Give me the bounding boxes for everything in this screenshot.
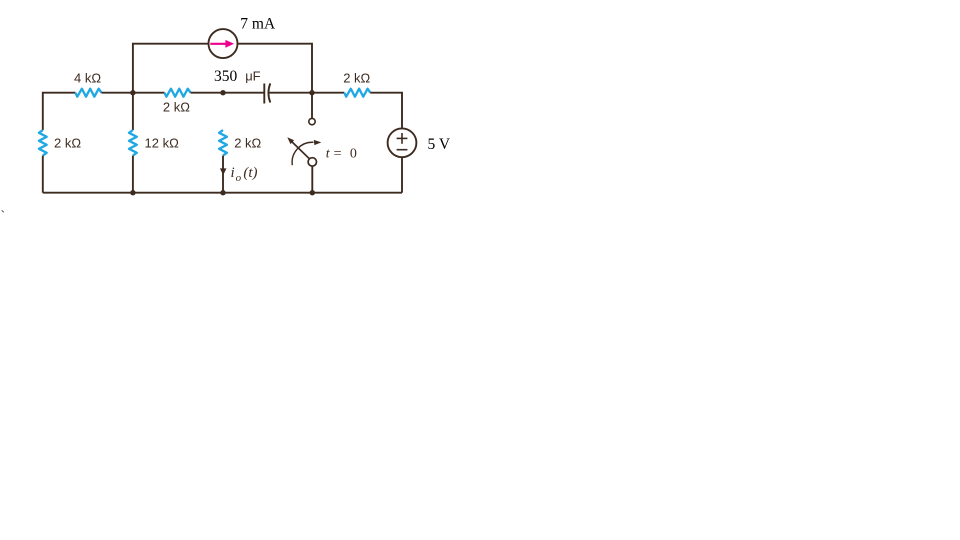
wire: top rail left segment from riser corner to current source [133, 44, 209, 93]
label 4 kOhm [74, 70, 101, 85]
label 12 kOhm [145, 136, 180, 151]
resistor 12 kOhm (vertical, second column) [129, 130, 137, 156]
wire: middle rail right corner down to voltage source top [370, 93, 402, 129]
wire: middle rail between 2k resistor and capacitor left plate [191, 92, 264, 94]
label 2 kOhm (right resistor) [343, 71, 370, 86]
junction dot bottom rail / output branch [220, 190, 225, 195]
capacitor 350 uF (left plate) [263, 84, 265, 104]
current source 7 mA [209, 29, 238, 58]
stray backtick mark [1, 209, 6, 224]
junction dot bottom rail / 12k branch [130, 190, 135, 195]
label t = 0 [326, 147, 357, 162]
svg-text:2 kΩ: 2 kΩ [163, 100, 190, 115]
label 2 kOhm (output branch resistor) [234, 136, 261, 151]
resistor 2 kOhm (vertical, left column) [39, 130, 47, 156]
capacitor 350 uF (right curved plate) [268, 83, 270, 102]
label 2 kOhm (left column resistor) [54, 136, 81, 151]
svg-text:`: ` [1, 209, 6, 224]
wire: middle rail between 4k resistor and node A [101, 92, 164, 94]
label 2 kOhm (middle resistor) [163, 100, 190, 115]
wire: riser from top rail down through node A to 12k resistor [132, 93, 134, 130]
label 350 [214, 68, 238, 85]
label io(t) [231, 165, 258, 184]
current arrow io(t) on output branch [220, 168, 227, 175]
label 5 V [428, 136, 451, 153]
switch blade with arrowhead [287, 137, 309, 159]
voltage source 5 V [388, 128, 417, 157]
wire: switch branch lower stub to bottom rail [311, 166, 313, 193]
resistor 2 kOhm (vertical, output branch) [219, 130, 227, 156]
wire: bottom rail [43, 192, 402, 194]
wire: output branch lower stub to bottom rail [222, 156, 224, 193]
svg-text:350: 350 [214, 68, 238, 85]
label uF [245, 69, 260, 84]
resistor 2 kOhm (horizontal, right) [344, 89, 370, 97]
wire: middle rail left end and left column upper stub [43, 93, 76, 130]
junction node A (middle rail / 12k branch) [130, 90, 135, 95]
wire: middle rail between capacitor and 2k right resistor through node C [269, 92, 344, 94]
wire: switch branch upper stub from node C to open terminal [311, 93, 313, 119]
svg-text:2 kΩ: 2 kΩ [54, 136, 81, 151]
svg-text:μF: μF [245, 69, 260, 84]
resistor 2 kOhm (horizontal, middle) [165, 89, 191, 97]
svg-text:2 kΩ: 2 kΩ [343, 71, 370, 86]
resistor 4 kOhm (horizontal) [75, 89, 101, 97]
svg-text:12 kΩ: 12 kΩ [145, 136, 180, 151]
svg-text:2 kΩ: 2 kΩ [234, 136, 261, 151]
junction node B (middle rail / output branch) [220, 90, 225, 95]
switch upper open terminal [309, 118, 315, 124]
svg-text:4 kΩ: 4 kΩ [74, 70, 101, 85]
label 7 mA [240, 16, 276, 33]
wire: top rail right segment and right riser down to middle rail [238, 44, 313, 93]
svg-text:5 V: 5 V [428, 136, 451, 153]
junction dot bottom rail / switch branch [310, 190, 315, 195]
svg-text:7 mA: 7 mA [240, 16, 276, 33]
wire: left column lower stub to bottom rail [42, 156, 44, 193]
junction node C (middle rail / switch branch) [309, 90, 314, 95]
wire: right column from voltage source bottom to bottom rail [401, 157, 403, 193]
switch motion arc with arrowhead [292, 140, 321, 165]
wire: 12k lower stub to bottom rail [132, 156, 134, 193]
switch lower pivot terminal [308, 158, 316, 166]
